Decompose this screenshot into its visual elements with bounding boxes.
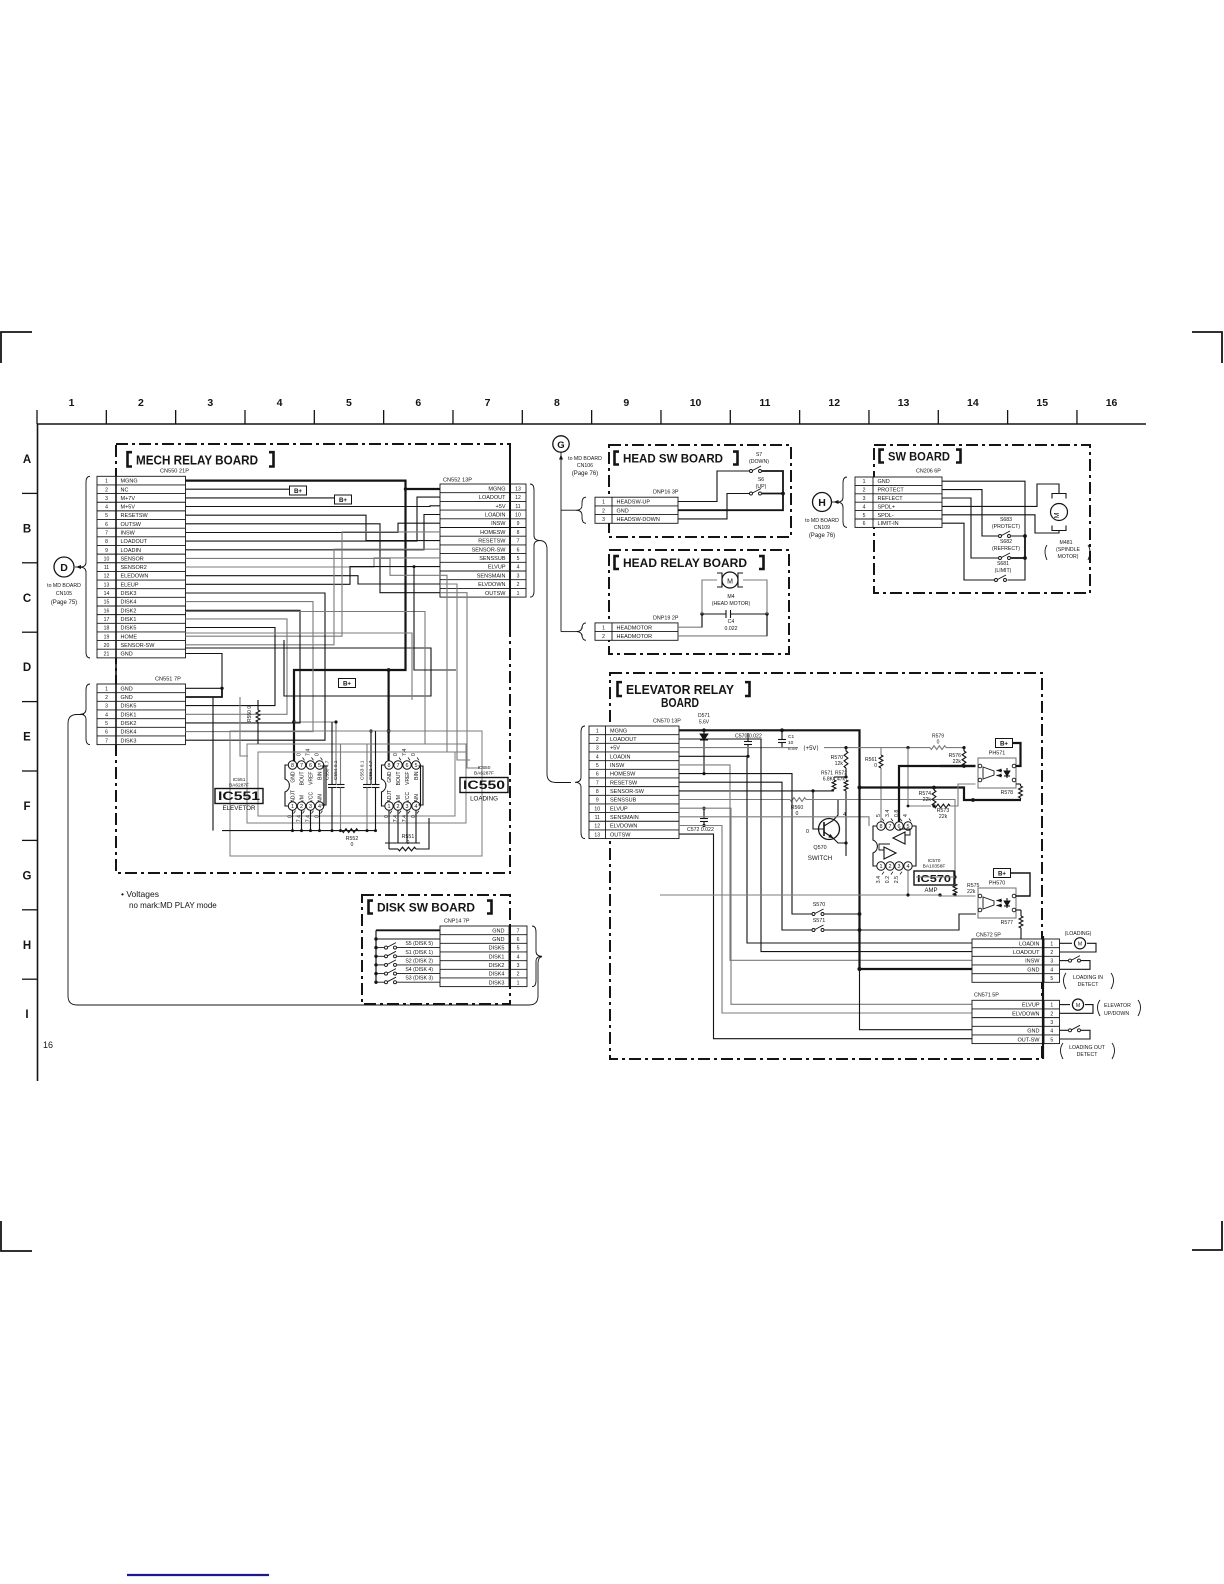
svg-text:GND: GND: [617, 508, 629, 514]
svg-text:CN551 7P: CN551 7P: [155, 677, 181, 683]
svg-text:SPDL-: SPDL-: [878, 513, 894, 519]
svg-text:47k: 47k: [837, 777, 846, 783]
svg-text:HOME: HOME: [121, 634, 138, 640]
svg-text:0.2: 0.2: [885, 876, 891, 883]
wire Q570 base from SENSOR-SW: [679, 791, 824, 829]
board outline ELEVATOR RELAY BOARD: [610, 673, 1042, 1059]
wire IC550 BIN-AIN loop: [419, 766, 424, 805]
svg-text:6: 6: [105, 730, 108, 736]
svg-text:SENSMAIN: SENSMAIN: [610, 815, 639, 821]
wire ELVUP to CN571-1: [679, 808, 972, 1004]
wire PROTECT: [942, 490, 999, 536]
transistor Q570: [819, 819, 840, 840]
wire CN550 GND to CN551 GND: [186, 654, 223, 689]
svg-text:B+: B+: [339, 497, 347, 504]
svg-text:3: 3: [406, 804, 409, 810]
svg-text:4: 4: [907, 864, 910, 870]
svg-text:• Voltages: • Voltages: [121, 889, 159, 899]
svg-text:M: M: [1054, 512, 1061, 518]
corner mark bottom-right: [1192, 1221, 1222, 1250]
svg-text:I: I: [25, 1009, 28, 1021]
corner mark top-right: [1192, 332, 1222, 363]
wire DISK3 CN550 to CN551: [186, 593, 326, 740]
svg-text:S683: S683: [1000, 517, 1012, 523]
svg-text:13: 13: [898, 397, 910, 409]
brace CN550: [80, 476, 90, 658]
ref circle D to MD BOARD CN105: [54, 557, 74, 577]
wire GND trunk down: [858, 788, 860, 970]
wire pin5 riser to +5V rail: [907, 748, 909, 806]
svg-text:MGNG: MGNG: [488, 486, 505, 492]
grid ruler left: [37, 424, 39, 1081]
wire OUTSW CN550 to CN552: [186, 524, 441, 593]
svg-text:2: 2: [300, 804, 303, 810]
svg-text:MGNG: MGNG: [121, 479, 138, 485]
svg-text:HOMESW: HOMESW: [610, 772, 636, 778]
svg-text:0: 0: [297, 753, 303, 756]
svg-text:15: 15: [104, 600, 110, 606]
svg-text:0: 0: [407, 840, 410, 846]
svg-text:BOUT: BOUT: [396, 772, 402, 786]
svg-text:CN106: CN106: [577, 463, 593, 469]
svg-text:DISK4: DISK4: [489, 972, 505, 978]
brace CNP14: [532, 926, 542, 987]
svg-text:+5V: +5V: [610, 746, 620, 752]
resistor R560 0: [679, 799, 790, 801]
wire REFLECT: [942, 498, 999, 558]
op-amp B in IC570: [884, 847, 896, 859]
wire mech loop 284-431: [186, 640, 432, 696]
long gray rail y895: [660, 894, 940, 896]
svg-text:Q570: Q570: [813, 845, 826, 851]
optocoupler PH571: [978, 758, 1016, 788]
switch S4: [374, 972, 377, 975]
svg-text:6: 6: [517, 547, 520, 553]
wire LOADOUT to CN572-2: [679, 739, 972, 952]
svg-text:2.5: 2.5: [894, 876, 900, 883]
svg-text:6: 6: [415, 397, 421, 409]
title HEAD SW BOARD: [615, 452, 620, 465]
svg-text:DISK5: DISK5: [121, 704, 137, 710]
wire GND to CN571-4: [860, 969, 973, 1030]
svg-text:4: 4: [903, 814, 909, 817]
svg-text:(UP): (UP): [756, 484, 767, 490]
svg-text:DISK2: DISK2: [121, 721, 137, 727]
svg-text:DISK4: DISK4: [121, 730, 137, 736]
wire HEADMOTOR 1: [678, 580, 717, 627]
svg-text:15: 15: [1036, 397, 1048, 409]
svg-text:IC550: IC550: [478, 765, 491, 771]
svg-text:SENSOR-SW: SENSOR-SW: [472, 547, 507, 553]
svg-text:2: 2: [889, 864, 892, 870]
wire GND switch common: [942, 481, 1025, 536]
svg-text:ADJT: ADJT: [387, 790, 393, 803]
svg-text:S682: S682: [1000, 539, 1012, 545]
svg-text:16: 16: [1106, 397, 1118, 409]
svg-text:7: 7: [517, 539, 520, 545]
wire HOMESW to S570: [679, 774, 812, 914]
svg-text:BIN: BIN: [414, 771, 420, 780]
svg-text:UP/DOWN: UP/DOWN: [1104, 1011, 1129, 1017]
svg-text:10: 10: [104, 556, 110, 562]
svg-text:0: 0: [796, 811, 799, 817]
op-amp IC550 package: [382, 765, 421, 806]
wire LOADOUT CN550 to CN552: [186, 497, 441, 541]
svg-text:0: 0: [874, 763, 877, 769]
svg-text:LOADIN: LOADIN: [485, 512, 506, 518]
svg-text:8: 8: [388, 763, 391, 769]
svg-text:G: G: [557, 440, 564, 451]
svg-text:1: 1: [880, 864, 883, 870]
svg-text:F: F: [23, 801, 30, 813]
wire IC551 BIN-AIN loop: [322, 766, 327, 805]
svg-text:5: 5: [1050, 976, 1053, 982]
svg-text:C551 4.7: C551 4.7: [368, 760, 374, 780]
svg-text:ELVUP: ELVUP: [1022, 1003, 1040, 1009]
wire INSW CN550 to CN552: [186, 523, 441, 532]
svg-text:SPDL+: SPDL+: [878, 504, 896, 510]
wire B+ horiz to opto: [860, 788, 1022, 801]
svg-text:M: M: [727, 579, 733, 586]
svg-text:(LOADING): (LOADING): [1065, 931, 1092, 937]
wire SPDL-: [942, 515, 1059, 533]
wire cap feed C553/C551: [371, 731, 389, 784]
wire LOADIN CN550 to CN552: [186, 515, 441, 550]
svg-text:4: 4: [105, 712, 108, 718]
svg-text:M4: M4: [727, 594, 734, 600]
svg-text:3: 3: [105, 704, 108, 710]
svg-text:5: 5: [596, 763, 599, 769]
motor M481 SPINDLE: [1051, 504, 1068, 521]
wire MGNG B+ trunk: [186, 481, 406, 765]
svg-text:3: 3: [309, 804, 312, 810]
svg-text:DISK4: DISK4: [121, 600, 137, 606]
svg-text:7: 7: [517, 928, 520, 934]
corner mark bottom-left: [1, 1221, 32, 1251]
svg-text:GND: GND: [121, 652, 133, 658]
svg-text:4: 4: [277, 397, 283, 409]
wire HEADSW-UP to S7: [678, 471, 750, 502]
svg-text:1: 1: [105, 479, 108, 485]
wire MGNG to CN552 pin13: [406, 488, 441, 490]
svg-text:VCC: VCC: [309, 792, 315, 803]
svg-text:(REFRECT): (REFRECT): [992, 546, 1020, 552]
svg-text:3: 3: [517, 573, 520, 579]
board outline DISK SW BOARD: [362, 895, 510, 1004]
svg-text:ELEUP: ELEUP: [121, 582, 139, 588]
wire DISK1 CN550 to CN551: [186, 619, 288, 714]
svg-text:0: 0: [351, 842, 354, 848]
motor M4 HEAD MOTOR: [722, 572, 738, 588]
brace DNP19: [576, 623, 586, 640]
brace CN206: [837, 477, 847, 527]
svg-text:14: 14: [104, 591, 110, 597]
svg-text:LOADIN: LOADIN: [121, 548, 142, 554]
svg-text:LOADIN: LOADIN: [1019, 941, 1040, 947]
svg-text:6: 6: [406, 763, 409, 769]
svg-text:OUTSW: OUTSW: [485, 591, 506, 597]
svg-text:C1: C1: [788, 734, 794, 740]
svg-text:VM: VM: [396, 795, 402, 803]
svg-text:RESETSW: RESETSW: [478, 539, 506, 545]
svg-text:4: 4: [596, 754, 599, 760]
svg-text:VM: VM: [300, 795, 306, 803]
board outline HEAD SW BOARD: [609, 445, 791, 537]
svg-text:17: 17: [104, 617, 110, 623]
svg-text:H: H: [23, 940, 31, 952]
svg-text:9: 9: [517, 521, 520, 527]
switch S1: [374, 955, 377, 958]
svg-text:HEAD SW BOARD: HEAD SW BOARD: [623, 454, 723, 466]
wire DISK5 CN550 to CN551: [186, 628, 276, 706]
title HEAD RELAY BOARD: [615, 556, 620, 569]
svg-text:CN105: CN105: [56, 591, 72, 597]
wire LOADIN to CN572-1: [679, 756, 972, 943]
svg-text:12: 12: [594, 824, 600, 830]
gray routing rect lower: [230, 731, 482, 856]
svg-text:S5 (DISK 5): S5 (DISK 5): [405, 941, 433, 947]
svg-text:7: 7: [105, 530, 108, 536]
title SW BOARD: [880, 450, 885, 463]
wire IC570 pin4 down: [907, 870, 909, 895]
svg-text:3: 3: [517, 963, 520, 969]
svg-text:R578: R578: [1001, 790, 1014, 796]
svg-text:SENSOR-SW: SENSOR-SW: [121, 643, 156, 649]
svg-text:5: 5: [1050, 1037, 1053, 1043]
capacitor C571 10 6.5V: [780, 728, 784, 732]
svg-text:SWITCH: SWITCH: [808, 855, 832, 862]
border overlay solid segments: [509, 444, 511, 631]
svg-text:3.4: 3.4: [876, 876, 882, 883]
svg-text:HEADSW-DOWN: HEADSW-DOWN: [617, 517, 660, 523]
capacitor C551 4.7: [375, 731, 377, 784]
svg-text:1: 1: [1050, 941, 1053, 947]
svg-text:DISK2: DISK2: [489, 963, 505, 969]
svg-text:CNP14 7P: CNP14 7P: [444, 919, 470, 925]
svg-text:D571: D571: [698, 713, 710, 719]
svg-text:INSW: INSW: [121, 530, 136, 536]
wire RESETSW CN550 to CN552: [186, 515, 441, 540]
footer blue rule: [127, 1574, 269, 1576]
svg-text:4: 4: [863, 504, 866, 510]
svg-text:BOUT: BOUT: [300, 772, 306, 786]
svg-text:(SPINDLE: (SPINDLE: [1056, 547, 1080, 553]
wire DISK4 CN550 to CN551: [186, 602, 314, 732]
svg-text:DETECT: DETECT: [1078, 982, 1100, 988]
svg-text:S6: S6: [758, 477, 764, 483]
svg-text:G: G: [23, 870, 32, 882]
svg-text:9: 9: [596, 798, 599, 804]
wire Q570 emitter: [833, 838, 846, 843]
svg-text:7: 7: [105, 738, 108, 744]
svg-text:2: 2: [517, 582, 520, 588]
svg-text:16: 16: [43, 1040, 53, 1050]
svg-text:S3 (DISK 3): S3 (DISK 3): [405, 976, 433, 982]
svg-text:⟨+5V⟩: ⟨+5V⟩: [803, 745, 819, 752]
op-amp A in IC570: [893, 832, 905, 844]
svg-text:GND: GND: [387, 771, 393, 783]
svg-text:3: 3: [863, 496, 866, 502]
svg-text:INSW: INSW: [1025, 959, 1040, 965]
svg-text:DISK SW BOARD: DISK SW BOARD: [377, 903, 475, 915]
svg-text:6: 6: [863, 521, 866, 527]
svg-text:REFLECT: REFLECT: [878, 496, 904, 502]
wire HEADMOTOR 2: [678, 580, 767, 636]
wire B+ branch to IC550: [388, 670, 390, 765]
capacitor C553 0.1: [366, 744, 368, 784]
svg-text:GND: GND: [492, 937, 504, 943]
label B+ row3: [186, 497, 335, 499]
ref circle G to MD BOARD CN106: [553, 436, 569, 452]
border overlay disk right: [509, 926, 511, 987]
svg-text:ELVDOWN: ELVDOWN: [610, 824, 637, 830]
harness G vertical: [560, 453, 562, 632]
brace DNP16: [576, 497, 586, 523]
svg-text:M: M: [1078, 942, 1082, 948]
svg-text:1: 1: [602, 500, 605, 506]
svg-text:13: 13: [515, 486, 521, 492]
board outline SW BOARD: [874, 445, 1090, 593]
svg-text:SENSSUB: SENSSUB: [479, 556, 506, 562]
svg-text:3: 3: [1050, 959, 1053, 965]
svg-text:DISK3: DISK3: [489, 980, 505, 986]
svg-text:22k: 22k: [923, 797, 932, 803]
wire OUTSW to CN571-5: [679, 834, 972, 1039]
svg-text:LOADIN: LOADIN: [610, 754, 631, 760]
wire cap feed C550/C554: [294, 722, 336, 784]
svg-text:2: 2: [602, 508, 605, 514]
svg-text:DISK1: DISK1: [489, 954, 505, 960]
svg-text:HOMESW: HOMESW: [480, 530, 506, 536]
svg-text:BA6287F: BA6287F: [229, 783, 249, 789]
capacitor C550 4.7: [331, 722, 333, 784]
svg-text:HEADSW-UP: HEADSW-UP: [617, 500, 651, 506]
svg-text:5: 5: [863, 513, 866, 519]
svg-text:1: 1: [291, 804, 294, 810]
svg-text:C553 0.1: C553 0.1: [360, 760, 366, 780]
svg-text:6: 6: [309, 763, 312, 769]
svg-text:11: 11: [104, 565, 109, 571]
svg-text:CN570 13P: CN570 13P: [653, 719, 681, 725]
svg-text:5: 5: [105, 513, 108, 519]
svg-text:HEADMOTOR: HEADMOTOR: [617, 634, 653, 640]
svg-text:11: 11: [595, 815, 600, 821]
wire M+5V CN550 to CN552: [186, 505, 441, 508]
svg-text:6: 6: [596, 772, 599, 778]
switch S2: [374, 963, 377, 966]
svg-text:0: 0: [315, 753, 321, 756]
svg-text:LOADING OUT: LOADING OUT: [1069, 1045, 1106, 1051]
svg-text:5: 5: [318, 763, 321, 769]
svg-text:DISK5: DISK5: [489, 946, 505, 952]
svg-text:IC551: IC551: [218, 791, 261, 803]
svg-text:(Page 76): (Page 76): [809, 533, 835, 539]
svg-text:5: 5: [346, 397, 352, 409]
wire GND common: [678, 471, 783, 510]
wire LIMIT-IN: [942, 523, 995, 580]
svg-text:PH570: PH570: [989, 881, 1005, 887]
svg-text:7.4: 7.4: [402, 749, 408, 756]
svg-text:LOADOUT: LOADOUT: [121, 539, 148, 545]
diode D571: [702, 728, 706, 732]
wire mech gray row a: [186, 612, 426, 745]
svg-text:LOADING IN: LOADING IN: [1073, 975, 1103, 981]
svg-text:22k: 22k: [939, 814, 948, 820]
svg-text:NC: NC: [121, 487, 129, 493]
svg-text:D: D: [23, 662, 31, 674]
svg-text:B+: B+: [294, 488, 302, 495]
svg-text:BA6287F: BA6287F: [474, 771, 494, 777]
svg-text:5.6V: 5.6V: [699, 720, 710, 726]
svg-text:DISK1: DISK1: [121, 617, 137, 623]
svg-text:12k: 12k: [835, 761, 844, 767]
svg-text:5: 5: [517, 556, 520, 562]
op-amp IC551 package: [285, 765, 324, 806]
svg-text:2: 2: [863, 488, 866, 494]
wire mech gray row b: [186, 633, 413, 700]
svg-text:1: 1: [388, 804, 391, 810]
svg-text:S681: S681: [997, 561, 1009, 567]
svg-text:to MD BOARD: to MD BOARD: [47, 583, 81, 589]
svg-text:GND: GND: [1027, 1029, 1039, 1035]
label B+ mech lower: [339, 679, 356, 688]
svg-text:H: H: [818, 497, 826, 509]
svg-text:S2 (DISK 2): S2 (DISK 2): [405, 958, 433, 964]
svg-text:8: 8: [880, 824, 883, 830]
svg-text:22k: 22k: [953, 759, 962, 765]
brace CN552: [530, 484, 540, 597]
svg-text:2: 2: [397, 804, 400, 810]
elevator motor symbol: [1060, 1004, 1071, 1006]
svg-text:9: 9: [105, 548, 108, 554]
svg-text:0: 0: [937, 740, 940, 746]
svg-text:M+7V: M+7V: [121, 496, 136, 502]
svg-text:ELVUP: ELVUP: [488, 565, 506, 571]
svg-text:7.4: 7.4: [306, 749, 312, 756]
svg-text:S4 (DISK 4): S4 (DISK 4): [405, 967, 433, 973]
svg-text:5: 5: [415, 763, 418, 769]
svg-text:DETECT: DETECT: [1077, 1052, 1099, 1058]
svg-text:LOADING: LOADING: [470, 796, 498, 803]
svg-text:GND: GND: [1027, 967, 1039, 973]
svg-text:ELEVATOR: ELEVATOR: [1104, 1003, 1131, 1009]
svg-text:S570: S570: [813, 902, 826, 908]
svg-text:ELVDOWN: ELVDOWN: [478, 582, 505, 588]
svg-text:1: 1: [863, 479, 866, 485]
svg-text:13: 13: [104, 582, 110, 588]
svg-text:to MD BOARD: to MD BOARD: [805, 518, 839, 524]
wire +5V rail: [679, 747, 798, 749]
svg-text:CN550 21P: CN550 21P: [160, 469, 189, 475]
IC570 package: [873, 826, 916, 866]
svg-text:12: 12: [104, 574, 110, 580]
wire INSW to CN572-3: [679, 765, 972, 960]
svg-text:3: 3: [105, 496, 108, 502]
svg-text:CN572 5P: CN572 5P: [976, 933, 1001, 939]
wire SPDL+: [942, 484, 1059, 506]
label B+ PH570: [994, 869, 1011, 878]
svg-text:1: 1: [69, 397, 75, 409]
svg-text:10: 10: [515, 512, 521, 518]
svg-text:INSW: INSW: [491, 521, 506, 527]
svg-text:SENSOR: SENSOR: [121, 556, 144, 562]
svg-text:ELVDOWN: ELVDOWN: [1012, 1011, 1039, 1017]
wire ELEUP CN550 to CN552: [186, 567, 441, 585]
svg-text:S1 (DISK 1): S1 (DISK 1): [405, 950, 433, 956]
svg-text:1: 1: [602, 625, 605, 631]
wire mech inner loop: [240, 697, 248, 756]
svg-text:SENSOR2: SENSOR2: [121, 565, 147, 571]
